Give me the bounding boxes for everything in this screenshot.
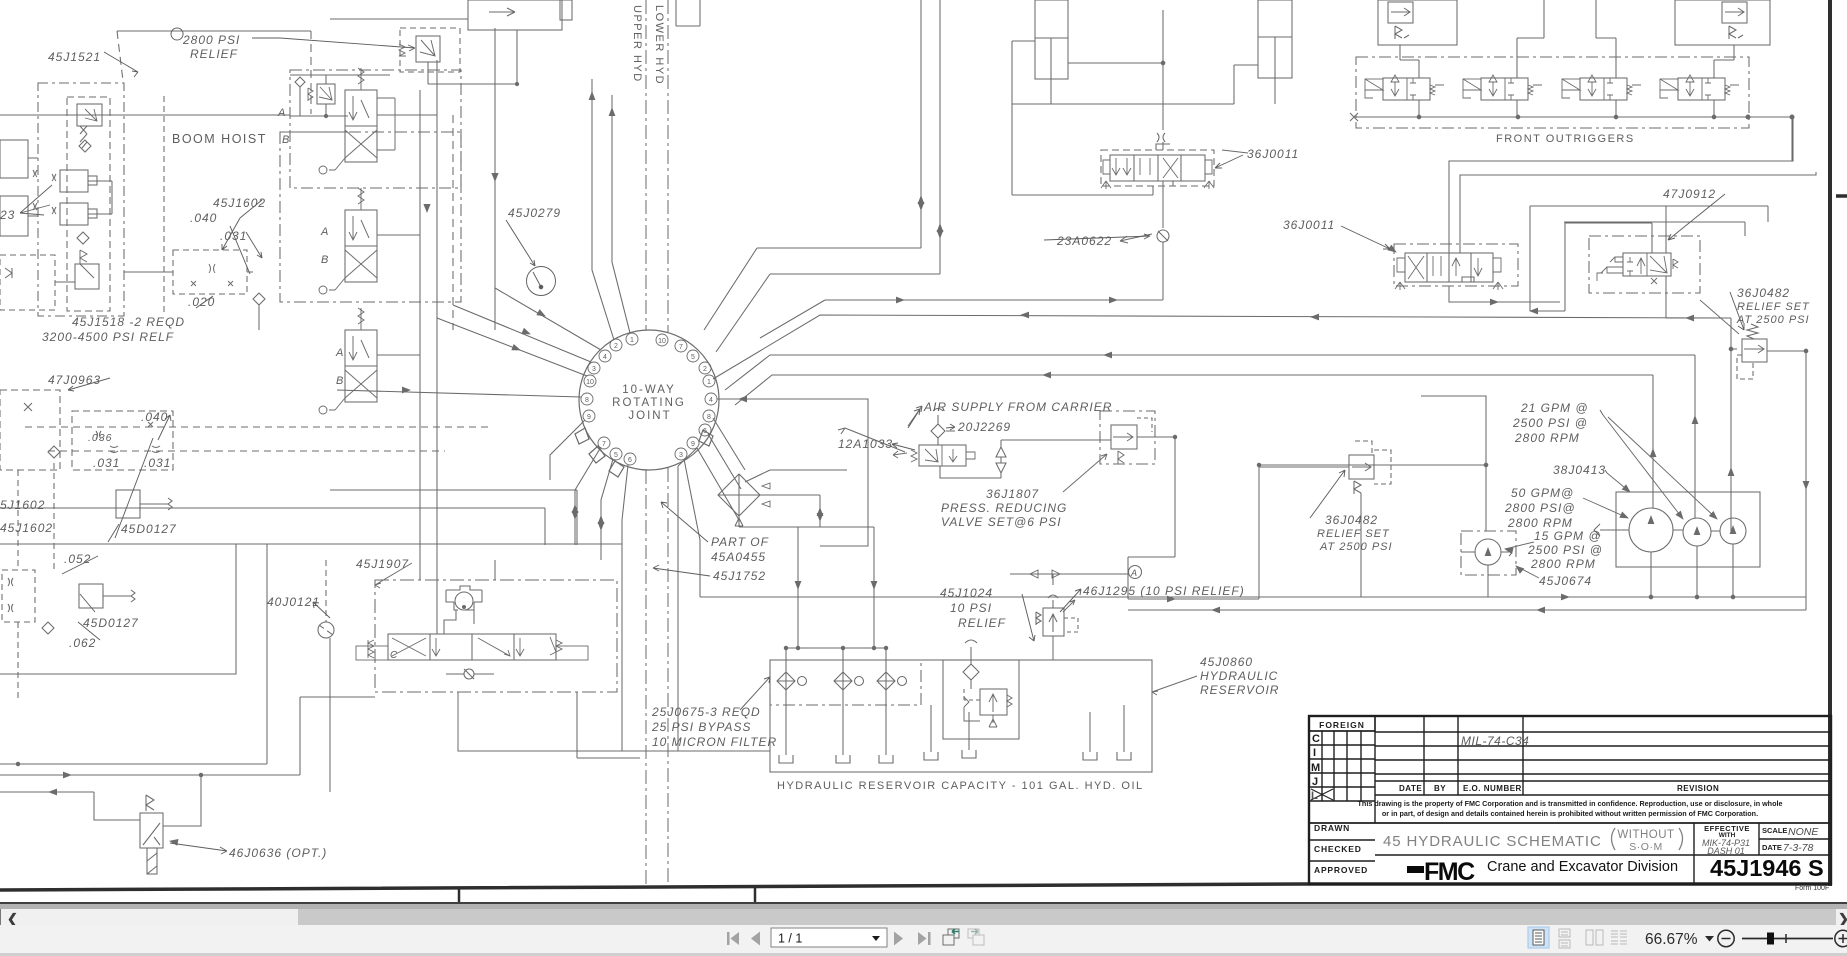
svg-text:UPPER HYD: UPPER HYD (631, 5, 643, 83)
svg-text:AT 2500 PSI: AT 2500 PSI (1736, 314, 1810, 326)
svg-text:FOREIGN: FOREIGN (1319, 720, 1365, 730)
bottom-left wires (0, 544, 267, 764)
svg-text:PART OF: PART OF (711, 535, 769, 549)
svg-text:3: 3 (679, 452, 683, 459)
vertical labels upper/lower hyd (631, 5, 665, 85)
svg-text:M: M (1311, 762, 1320, 774)
last page (918, 932, 927, 945)
drops to tanks (786, 690, 1124, 755)
svg-text:AT 2500 PSI: AT 2500 PSI (1319, 541, 1393, 553)
check below (464, 669, 474, 679)
top small box with arrow (468, 0, 562, 30)
svg-text:SCALE: SCALE (1762, 826, 1787, 835)
svg-text:45J1518 -2 REQD: 45J1518 -2 REQD (72, 315, 185, 329)
RIGHT MID: 36J0011 #2, 47J0912, nest, relief, pumps (1257, 118, 1816, 610)
confidentiality band (1309, 822, 1831, 824)
tank symbols (779, 750, 1131, 763)
svg-text:8: 8 (707, 414, 711, 421)
svg-text:RELIEF SET: RELIEF SET (1317, 528, 1390, 540)
svg-text:45J1946 S: 45J1946 S (1710, 855, 1824, 881)
svg-text:DATE: DATE (1762, 843, 1782, 852)
svg-text:45J1907: 45J1907 (356, 557, 409, 571)
rotary joint symbol (455, 592, 473, 610)
prev page (751, 932, 760, 946)
svg-text:.052: .052 (64, 552, 91, 566)
right relief 36J0482 (1742, 339, 1767, 362)
svg-text:NONE: NONE (1788, 826, 1819, 838)
svg-text:38J0413: 38J0413 (1553, 463, 1606, 477)
svg-text:3: 3 (592, 366, 596, 373)
svg-text:10 MICRON FILTER: 10 MICRON FILTER (652, 735, 777, 749)
svg-text:47J0912: 47J0912 (1663, 187, 1716, 201)
45J1024 assembly (943, 660, 1019, 739)
svg-text:23A0622: 23A0622 (1056, 234, 1112, 248)
svg-text:.036: .036 (88, 432, 112, 444)
nest wires (1449, 118, 1816, 253)
facing (1586, 930, 1603, 945)
continuous (disabled) (1559, 929, 1570, 948)
svg-text:36J0011: 36J0011 (1283, 218, 1335, 232)
single page (active) (1528, 927, 1549, 948)
svg-text:.031: .031 (144, 456, 171, 470)
40J0121 (318, 622, 334, 638)
svg-text:45J1024: 45J1024 (940, 586, 993, 600)
svg-text:A: A (320, 226, 330, 238)
svg-text:DRAWN: DRAWN (1314, 823, 1350, 833)
47J0963 dashed box (0, 390, 60, 470)
svg-text:2: 2 (614, 343, 618, 350)
svg-text:BY: BY (1434, 784, 1446, 793)
svg-text:.040: .040 (141, 410, 168, 424)
group dash-dot boxes (290, 70, 461, 188)
feed bus and drops (786, 527, 886, 672)
lower solenoid pair (2, 570, 35, 622)
mid relief 36J0482 (1349, 455, 1374, 479)
MID LEFT (0, 390, 622, 874)
svg-text:CHECKED: CHECKED (1314, 844, 1362, 854)
left small box (1421, 396, 1486, 531)
svg-text:40J0121: 40J0121 (267, 595, 320, 609)
filter dashdot box (770, 660, 921, 705)
solid h lines (0, 490, 622, 544)
svg-text:E.O. NUMBER: E.O. NUMBER (1463, 784, 1522, 793)
svg-text:45J0860: 45J0860 (1200, 655, 1253, 669)
svg-text:4: 4 (709, 397, 713, 404)
TOP CENTER CYLINDERS + 36J0011 #1 (704, 0, 1292, 352)
svg-text:2500 PSI @: 2500 PSI @ (1527, 543, 1603, 557)
svg-text:RELIEF: RELIEF (958, 616, 1006, 630)
svg-text:10: 10 (658, 338, 666, 345)
svg-text:15 GPM @: 15 GPM @ (1534, 529, 1602, 543)
mounting tabs (575, 428, 713, 477)
orifice box (72, 411, 173, 470)
svg-text:JOINT: JOINT (628, 410, 671, 422)
check diamond (79, 140, 91, 152)
twin checks (996, 440, 1006, 478)
middle drops from top (1517, 0, 1544, 78)
svg-text:C: C (1312, 733, 1320, 745)
svg-text:6: 6 (703, 428, 707, 435)
svg-text:12A1033: 12A1033 (838, 437, 893, 451)
svg-text:A: A (335, 347, 345, 359)
svg-text:36J0482: 36J0482 (1325, 513, 1378, 527)
left cut-off bits (0, 140, 28, 178)
svg-text:10-WAY: 10-WAY (622, 384, 676, 396)
svg-text:ROTATING: ROTATING (612, 397, 686, 409)
svg-text:I: I (1313, 747, 1316, 759)
svg-text:36J0011: 36J0011 (1247, 147, 1299, 161)
air valve 12A1033 (919, 445, 966, 466)
svg-text:A: A (1130, 568, 1139, 578)
svg-text:3200-4500 PSI RELF: 3200-4500 PSI RELF (42, 330, 174, 344)
svg-text:9: 9 (587, 414, 591, 421)
10-way rotating joint (575, 330, 719, 477)
valve units (1365, 75, 1444, 117)
svg-text:BOOM HOIST: BOOM HOIST (172, 132, 267, 146)
45J0674 (1461, 531, 1516, 575)
svg-text:B: B (336, 375, 345, 387)
47J0912 (1589, 236, 1700, 293)
valve stack 1 (319, 68, 395, 174)
svg-text:23: 23 (0, 208, 15, 222)
svg-text:45D0127: 45D0127 (83, 616, 139, 630)
svg-text:or in part, of design and deta: or in part, of design and details contai… (1382, 809, 1758, 818)
svg-text:B: B (321, 254, 330, 266)
solenoid valves pair (60, 170, 88, 192)
vertical trunks w/ double arrows (704, 0, 921, 330)
main 4-way valve (388, 634, 556, 660)
svg-text:L: L (1311, 790, 1318, 802)
filters: diamond + bypass circle (777, 672, 907, 690)
TOP LEFT: boom hoist assembly (0, 0, 700, 560)
lower relief (75, 264, 99, 289)
svg-text:RESERVOIR: RESERVOIR (1200, 683, 1279, 697)
svg-text:1: 1 (630, 337, 634, 344)
svg-text:HYDRAULIC RESERVOIR CAPACITY: HYDRAULIC RESERVOIR CAPACITY - 101 GAL. … (777, 780, 1144, 792)
36J0011 #1 (1101, 150, 1214, 186)
next view icon (disabled) (968, 929, 984, 945)
svg-text:5J1602: 5J1602 (0, 498, 45, 512)
svg-text:45J1521: 45J1521 (48, 50, 101, 64)
svg-text:9: 9 (691, 441, 695, 448)
svg-text:1: 1 (707, 379, 711, 386)
svg-text:This drawing is the property o: This drawing is the property of FMC Corp… (1358, 799, 1783, 808)
svg-text:2800 RPM: 2800 RPM (1530, 557, 1596, 571)
relief valve top (77, 104, 102, 126)
svg-text:2500 PSI @: 2500 PSI @ (1512, 416, 1588, 430)
svg-text:45J0674: 45J0674 (1539, 574, 1592, 588)
svg-text:2800 RPM: 2800 RPM (1514, 431, 1580, 445)
svg-text:2800 PSI@: 2800 PSI@ (1504, 501, 1576, 515)
svg-text:45J0279: 45J0279 (508, 206, 561, 220)
svg-text:7: 7 (679, 344, 683, 351)
svg-text:FMC: FMC (1424, 858, 1475, 886)
FRONT OUTRIGGERS (1350, 0, 1794, 161)
svg-text:J: J (1312, 776, 1318, 788)
svg-text:6: 6 (628, 457, 632, 464)
23A0622 check (1157, 230, 1169, 242)
svg-text:45D0127: 45D0127 (121, 522, 177, 536)
svg-text:B: B (282, 134, 291, 146)
AIR SUPPLY + 36J1807 (838, 406, 1806, 610)
svg-text:10 PSI: 10 PSI (950, 601, 992, 615)
valve stack 2 (319, 188, 377, 294)
svg-text:REVISION: REVISION (1677, 784, 1719, 793)
fan lines left of joint (337, 79, 697, 751)
svg-text:7: 7 (602, 441, 606, 448)
svg-text:Crane and Excavator Division: Crane and Excavator Division (1487, 859, 1678, 875)
svg-text:4: 4 (603, 354, 607, 361)
2800 psi relief (416, 36, 440, 62)
first page btn (727, 932, 931, 946)
svg-text:Form 100F: Form 100F (1795, 885, 1829, 892)
page bottom edge (0, 902, 1847, 904)
svg-text:C: C (390, 650, 399, 661)
dashed assembly boxes 45J1521 (38, 83, 124, 316)
svg-text:S·O·M: S·O·M (1629, 841, 1662, 853)
46J1295 + (A) (1010, 566, 1142, 661)
svg-text:VALVE SET@6 PSI: VALVE SET@6 PSI (941, 515, 1062, 529)
svg-text:45J1752: 45J1752 (713, 569, 766, 583)
svg-text:A: A (277, 107, 287, 119)
36J1807 (1100, 411, 1155, 464)
svg-text:45A0455: 45A0455 (711, 550, 766, 564)
pumps (1616, 492, 1760, 567)
svg-text:47J0963: 47J0963 (48, 373, 101, 387)
center divider dash-dot lines (646, 0, 668, 888)
svg-text:46J0636 (OPT.): 46J0636 (OPT.) (229, 846, 327, 860)
2800psi relief R1 (317, 84, 335, 104)
svg-text:MIL-74-C34: MIL-74-C34 (1461, 734, 1529, 748)
top relief assemblies (1378, 0, 1457, 78)
svg-text:FRONT OUTRIGGERS: FRONT OUTRIGGERS (1496, 133, 1635, 145)
svg-text:5: 5 (614, 452, 618, 459)
drawing right border (1828, 0, 1832, 886)
svg-text:2800 PSI: 2800 PSI (182, 33, 240, 47)
svg-text:25 PSI BYPASS: 25 PSI BYPASS (651, 720, 752, 734)
svg-text:20J2269: 20J2269 (957, 420, 1011, 434)
svg-text:2: 2 (703, 366, 707, 373)
svg-text:.062: .062 (69, 636, 96, 650)
page combo (771, 928, 887, 947)
bus (1350, 113, 1792, 121)
svg-text:45J1602: 45J1602 (0, 521, 53, 535)
svg-text:45 HYDRAULIC SCHEMATIC: 45 HYDRAULIC SCHEMATIC (1383, 833, 1602, 850)
svg-text:36J0482: 36J0482 (1737, 286, 1790, 300)
svg-text:PRESS. REDUCING: PRESS. REDUCING (941, 501, 1067, 515)
drawing bottom border (0, 884, 1831, 890)
svg-text:.040: .040 (190, 211, 217, 225)
svg-text:AIR SUPPLY FROM CARRIER: AIR SUPPLY FROM CARRIER (923, 400, 1112, 414)
svg-text:21 GPM @: 21 GPM @ (1520, 401, 1589, 415)
svg-text:WITHOUT: WITHOUT (1617, 829, 1674, 841)
FMC logo (1407, 858, 1475, 886)
fold tick marks (458, 888, 461, 902)
title block (1309, 716, 1831, 884)
svg-text:7-3-78: 7-3-78 (1783, 842, 1814, 854)
foreign grid (1309, 716, 1375, 731)
45D0127 cyl 1 (116, 490, 140, 518)
lower section (1309, 840, 1375, 861)
svg-text:36J1807: 36J1807 (986, 487, 1039, 501)
drains down (437, 560, 640, 758)
long dashed orifice lines (25, 427, 490, 451)
46J0636 valve (140, 813, 163, 848)
svg-text:DATE: DATE (1399, 784, 1422, 793)
next page (894, 932, 903, 946)
svg-text:LOWER HYD: LOWER HYD (653, 5, 665, 85)
big left box (0, 544, 236, 674)
svg-text:RELIEF: RELIEF (190, 47, 238, 61)
prev view icon (943, 929, 959, 945)
36J0011 #2 (1394, 244, 1518, 286)
45J1907 assembly (356, 560, 640, 758)
svg-text:25J0675-3 REQD: 25J0675-3 REQD (651, 705, 761, 719)
valve stack 3 (319, 308, 377, 414)
reservoir label leader (1152, 676, 1197, 695)
svg-text:APPROVED: APPROVED (1314, 865, 1368, 875)
RESERVOIR (458, 527, 1197, 772)
svg-text:5: 5 (691, 354, 695, 361)
leader lines (1505, 415, 1717, 578)
svg-text:.031: .031 (93, 456, 120, 470)
horizontal scrollbar (0, 909, 1847, 925)
fan lines right of joint + long trunks (684, 315, 1731, 597)
vertical buses (420, 60, 437, 560)
continuous facing (1611, 931, 1627, 944)
air filter (931, 409, 945, 439)
top lines (0, 31, 311, 115)
toolbar (0, 925, 1847, 953)
svg-text:50 GPM@: 50 GPM@ (1511, 486, 1574, 500)
svg-text:2800 RPM: 2800 RPM (1507, 516, 1573, 530)
leader (375, 563, 412, 588)
svg-text:8: 8 (585, 397, 589, 404)
svg-text:RELIEF SET: RELIEF SET (1737, 301, 1810, 313)
svg-text:10: 10 (586, 379, 594, 386)
revision rows (1375, 732, 1831, 795)
svg-text:46J1295 (10 PSI RELIEF): 46J1295 (10 PSI RELIEF) (1083, 584, 1245, 598)
leader lines for labels (104, 52, 138, 77)
svg-text:HYDRAULIC: HYDRAULIC (1200, 669, 1278, 683)
45D0127 cyl 2 (79, 584, 103, 608)
